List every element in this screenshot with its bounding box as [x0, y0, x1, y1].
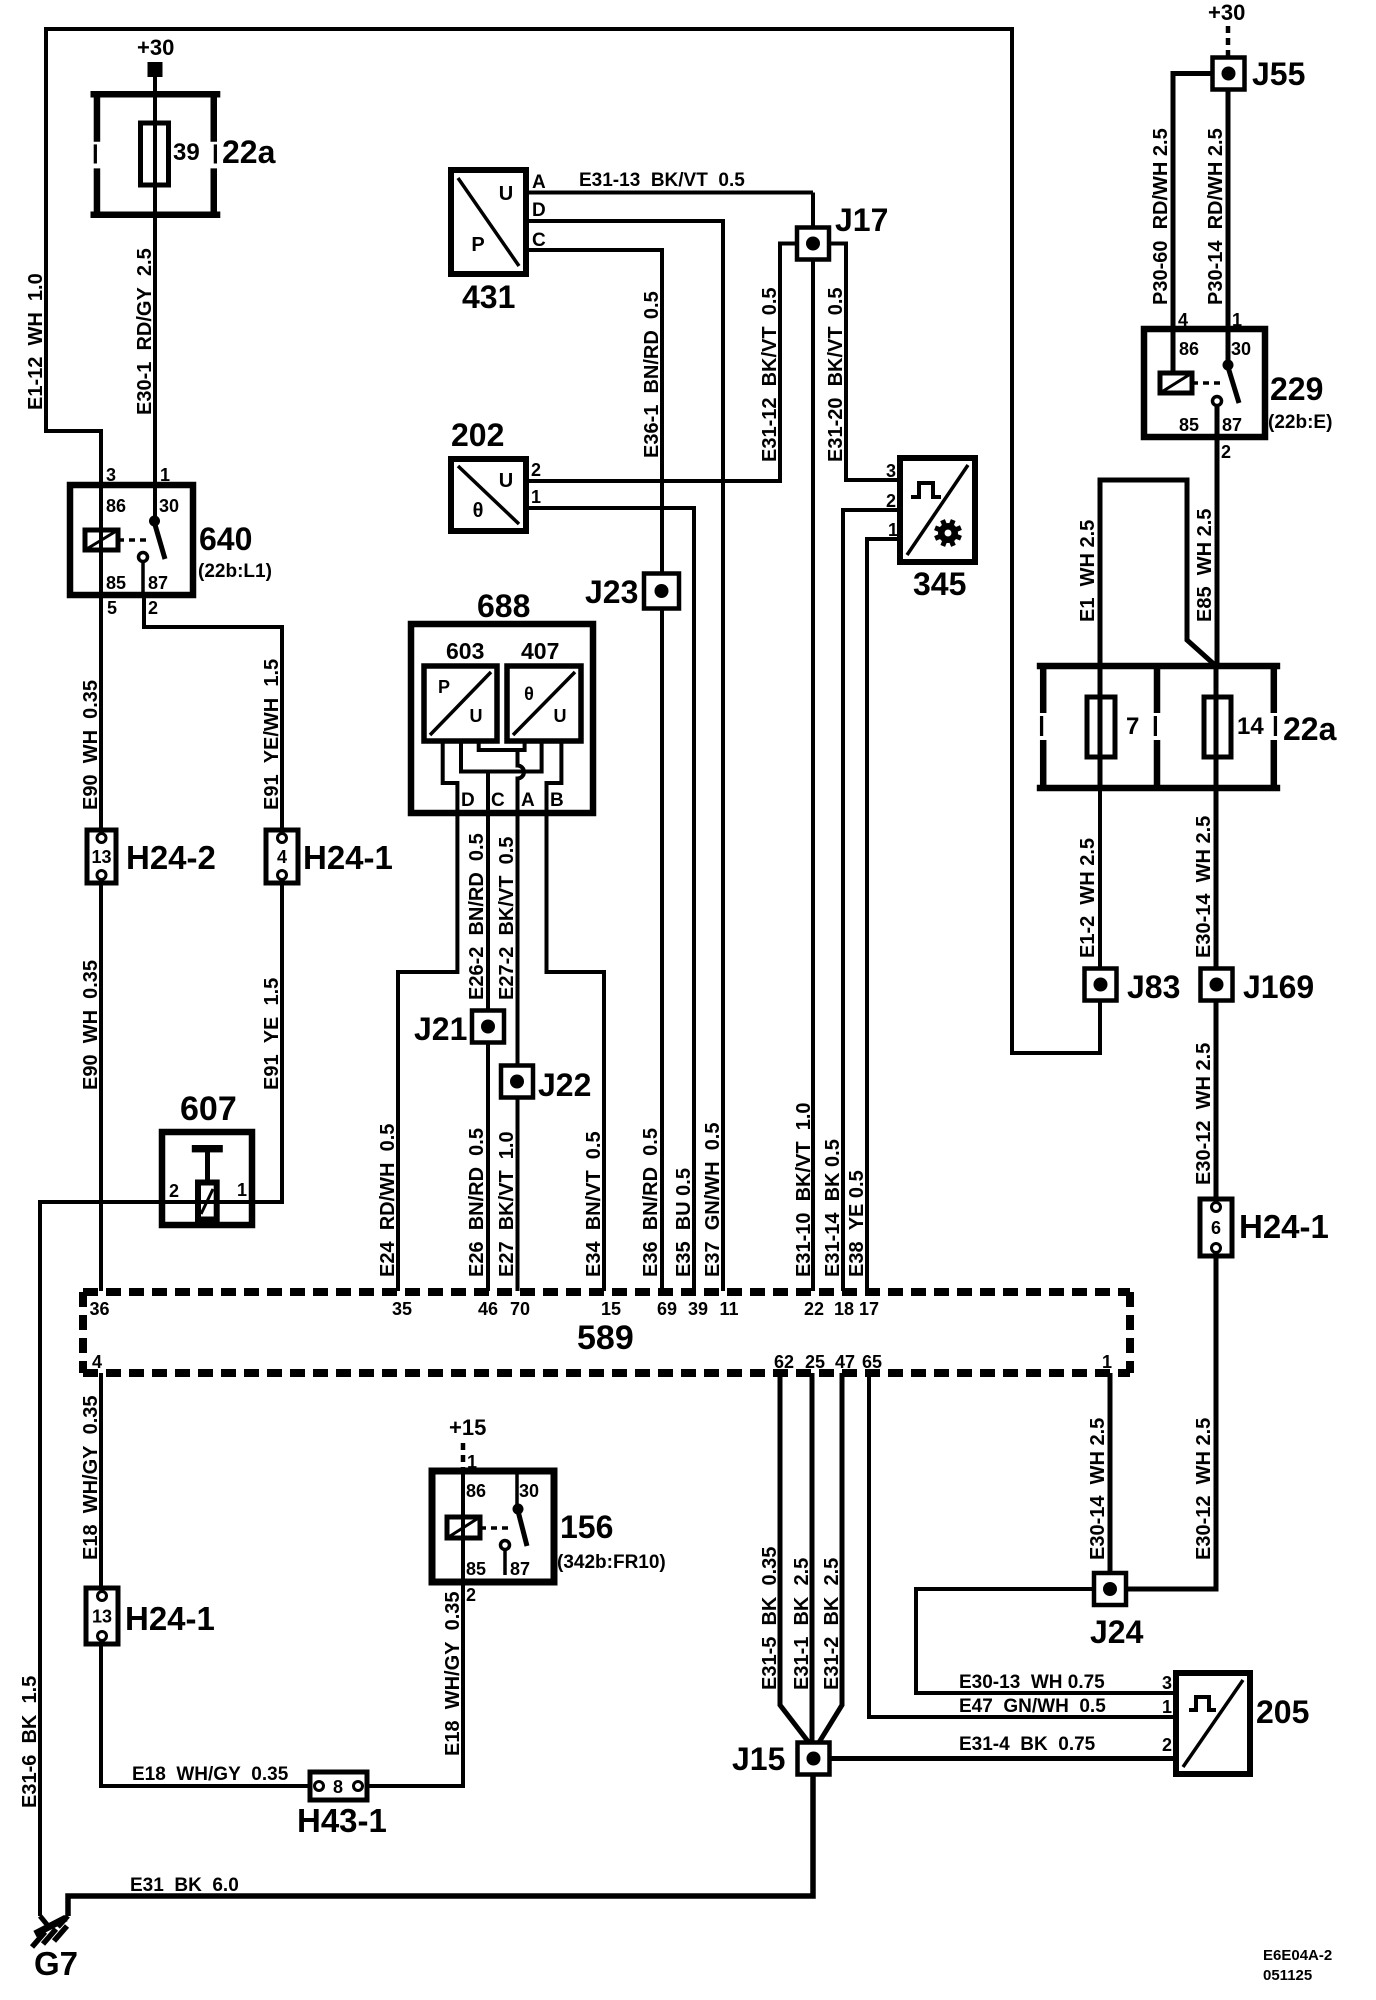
svg-text:E30-1 RD/GY 2.5: E30-1 RD/GY 2.5	[134, 248, 156, 415]
svg-text:+15: +15	[449, 1415, 486, 1440]
svg-text:E90 WH 0.35: E90 WH 0.35	[80, 680, 102, 810]
svg-text:B: B	[550, 790, 564, 811]
svg-text:A: A	[521, 790, 535, 811]
svg-text:E31-20 BK/VT 0.5: E31-20 BK/VT 0.5	[825, 287, 847, 462]
svg-text:J83: J83	[1127, 969, 1180, 1005]
svg-text:H24-1: H24-1	[125, 1600, 215, 1637]
svg-text:E91 YE/WH 1.5: E91 YE/WH 1.5	[261, 659, 283, 810]
svg-text:85: 85	[1179, 415, 1199, 435]
svg-text:J55: J55	[1252, 56, 1305, 92]
svg-text:E31-12 BK/VT 0.5: E31-12 BK/VT 0.5	[759, 287, 781, 462]
svg-text:13: 13	[92, 1607, 112, 1627]
svg-text:E90 WH 0.35: E90 WH 0.35	[80, 960, 102, 1090]
svg-text:688: 688	[477, 588, 530, 624]
svg-text:1: 1	[237, 1180, 247, 1200]
svg-text:051125: 051125	[1263, 1967, 1312, 1984]
svg-text:22a: 22a	[222, 134, 276, 170]
svg-text:589: 589	[577, 1319, 634, 1357]
svg-text:205: 205	[1256, 1694, 1309, 1730]
svg-text:E30-12 WH 2.5: E30-12 WH 2.5	[1193, 1043, 1215, 1185]
svg-text:22: 22	[804, 1299, 824, 1319]
svg-text:1: 1	[1232, 310, 1242, 330]
svg-text:E91 YE 1.5: E91 YE 1.5	[261, 978, 283, 1090]
svg-text:30: 30	[1231, 339, 1251, 359]
svg-text:13: 13	[91, 847, 111, 867]
svg-text:P: P	[471, 234, 484, 256]
svg-text:407: 407	[521, 638, 559, 664]
svg-text:25: 25	[805, 1352, 825, 1372]
svg-text:11: 11	[719, 1299, 738, 1319]
svg-text:H24-1: H24-1	[303, 839, 393, 876]
svg-text:U: U	[499, 183, 513, 205]
svg-text:P: P	[438, 677, 450, 697]
svg-text:(342b:FR10): (342b:FR10)	[557, 1552, 666, 1573]
svg-text:70: 70	[510, 1299, 530, 1319]
svg-text:E37 GN/WH 0.5: E37 GN/WH 0.5	[702, 1123, 724, 1278]
svg-text:1: 1	[1102, 1352, 1112, 1372]
svg-text:J24: J24	[1090, 1614, 1144, 1650]
svg-text:D: D	[532, 200, 546, 221]
svg-text:156: 156	[560, 1509, 613, 1545]
svg-text:39: 39	[688, 1299, 708, 1319]
svg-text:E26-2 BN/RD 0.5: E26-2 BN/RD 0.5	[466, 833, 488, 1000]
svg-text:H24-2: H24-2	[126, 839, 216, 876]
svg-text:E31-1 BK 2.5: E31-1 BK 2.5	[791, 1558, 813, 1690]
svg-text:E31 BK 6.0: E31 BK 6.0	[130, 1875, 239, 1896]
svg-text:30: 30	[159, 496, 179, 516]
svg-text:G7: G7	[34, 1945, 78, 1982]
svg-text:1: 1	[531, 487, 541, 507]
svg-text:431: 431	[462, 279, 515, 315]
svg-text:4: 4	[277, 847, 287, 867]
svg-text:E18 WH/GY 0.35: E18 WH/GY 0.35	[132, 1764, 289, 1785]
svg-text:2: 2	[531, 460, 541, 480]
svg-text:E1-12 WH 1.0: E1-12 WH 1.0	[25, 273, 47, 410]
svg-text:2: 2	[886, 491, 896, 511]
svg-text:E18 WH/GY 0.35: E18 WH/GY 0.35	[442, 1591, 464, 1756]
svg-text:E85 WH 2.5: E85 WH 2.5	[1194, 509, 1216, 622]
svg-text:1: 1	[888, 520, 898, 540]
svg-text:607: 607	[180, 1090, 237, 1128]
svg-text:15: 15	[601, 1299, 621, 1319]
svg-text:17: 17	[859, 1299, 879, 1319]
svg-text:C: C	[532, 230, 546, 251]
svg-text:E34 BN/VT 0.5: E34 BN/VT 0.5	[583, 1131, 605, 1277]
svg-text:3: 3	[886, 461, 896, 481]
svg-text:65: 65	[862, 1352, 882, 1372]
svg-text:E27 BK/VT 1.0: E27 BK/VT 1.0	[496, 1131, 518, 1277]
svg-text:2: 2	[169, 1181, 179, 1201]
svg-text:1: 1	[467, 1452, 477, 1472]
svg-text:E30-14 WH 2.5: E30-14 WH 2.5	[1087, 1418, 1109, 1560]
svg-text:87: 87	[510, 1559, 530, 1579]
svg-text:2: 2	[1162, 1735, 1172, 1755]
svg-text:U: U	[499, 470, 513, 492]
svg-text:E31-10 BK/VT 1.0: E31-10 BK/VT 1.0	[793, 1102, 815, 1277]
svg-text:640: 640	[199, 521, 252, 557]
svg-text:1: 1	[160, 465, 170, 485]
svg-text:1: 1	[1162, 1697, 1172, 1717]
svg-text:E1-2 WH 2.5: E1-2 WH 2.5	[1077, 838, 1099, 958]
svg-text:8: 8	[333, 1777, 343, 1797]
svg-text:(22b:E): (22b:E)	[1268, 412, 1332, 433]
svg-text:3: 3	[1162, 1673, 1172, 1693]
svg-text:46: 46	[478, 1299, 498, 1319]
svg-text:E31-5 BK 0.35: E31-5 BK 0.35	[759, 1547, 781, 1690]
svg-text:62: 62	[774, 1352, 794, 1372]
svg-text:E18 WH/GY 0.35: E18 WH/GY 0.35	[80, 1395, 102, 1560]
svg-text:E30-13 WH 0.75: E30-13 WH 0.75	[959, 1672, 1105, 1693]
svg-text:7: 7	[1126, 713, 1139, 740]
svg-text:E31-13 BK/VT 0.5: E31-13 BK/VT 0.5	[579, 170, 745, 191]
svg-text:+30: +30	[137, 35, 174, 60]
svg-text:E30-12 WH 2.5: E30-12 WH 2.5	[1193, 1418, 1215, 1560]
svg-text:5: 5	[107, 598, 117, 618]
svg-text:69: 69	[657, 1299, 677, 1319]
svg-text:603: 603	[446, 638, 484, 664]
svg-text:4: 4	[1178, 310, 1188, 330]
svg-text:P30-60 RD/WH 2.5: P30-60 RD/WH 2.5	[1150, 128, 1172, 305]
svg-text:22a: 22a	[1283, 711, 1337, 747]
svg-text:A: A	[532, 172, 546, 193]
svg-text:E6E04A-2: E6E04A-2	[1263, 1947, 1332, 1964]
svg-text:E27-2 BK/VT 0.5: E27-2 BK/VT 0.5	[496, 837, 518, 1000]
svg-text:U: U	[554, 706, 567, 726]
svg-text:J17: J17	[835, 202, 888, 238]
svg-text:30: 30	[519, 1481, 539, 1501]
svg-text:86: 86	[1179, 339, 1199, 359]
svg-text:E30-14 WH 2.5: E30-14 WH 2.5	[1193, 816, 1215, 958]
svg-text:E1 WH 2.5: E1 WH 2.5	[1077, 520, 1099, 622]
svg-text:2: 2	[1221, 442, 1231, 462]
svg-text:θ: θ	[473, 500, 484, 522]
svg-text:87: 87	[148, 573, 168, 593]
svg-text:39: 39	[173, 139, 200, 166]
svg-text:D: D	[461, 790, 475, 811]
svg-text:U: U	[470, 706, 483, 726]
svg-text:E36 BN/RD 0.5: E36 BN/RD 0.5	[640, 1128, 662, 1277]
svg-text:36: 36	[89, 1299, 109, 1319]
svg-text:2: 2	[148, 598, 158, 618]
svg-text:47: 47	[835, 1352, 855, 1372]
svg-text:3: 3	[106, 465, 116, 485]
svg-text:E38 YE 0.5: E38 YE 0.5	[846, 1170, 868, 1277]
svg-text:E35 BU 0.5: E35 BU 0.5	[673, 1168, 695, 1277]
svg-text:H43-1: H43-1	[297, 1802, 387, 1839]
svg-text:θ: θ	[524, 684, 534, 704]
svg-text:86: 86	[106, 496, 126, 516]
svg-text:E47 GN/WH 0.5: E47 GN/WH 0.5	[959, 1696, 1106, 1717]
svg-text:86: 86	[466, 1481, 486, 1501]
svg-text:87: 87	[1222, 415, 1242, 435]
svg-text:345: 345	[913, 566, 966, 602]
svg-text:+30: +30	[1208, 0, 1245, 25]
svg-text:85: 85	[106, 573, 126, 593]
svg-text:4: 4	[92, 1352, 102, 1372]
svg-text:E31-4 BK 0.75: E31-4 BK 0.75	[959, 1734, 1096, 1755]
svg-text:202: 202	[451, 417, 504, 453]
svg-text:2: 2	[466, 1585, 476, 1605]
svg-text:E26 BN/RD 0.5: E26 BN/RD 0.5	[466, 1128, 488, 1277]
svg-text:J169: J169	[1243, 969, 1314, 1005]
svg-text:J21: J21	[414, 1011, 467, 1047]
svg-text:14: 14	[1237, 713, 1264, 740]
svg-text:C: C	[491, 790, 505, 811]
svg-text:P30-14 RD/WH 2.5: P30-14 RD/WH 2.5	[1205, 128, 1227, 305]
svg-text:E24 RD/WH 0.5: E24 RD/WH 0.5	[377, 1124, 399, 1277]
svg-text:J23: J23	[585, 574, 638, 610]
svg-text:85: 85	[466, 1559, 486, 1579]
svg-text:6: 6	[1211, 1218, 1221, 1238]
svg-text:H24-1: H24-1	[1239, 1208, 1329, 1245]
svg-text:35: 35	[392, 1299, 412, 1319]
svg-text:J15: J15	[732, 1741, 785, 1777]
svg-text:E31-6 BK 1.5: E31-6 BK 1.5	[19, 1676, 41, 1808]
svg-text:18: 18	[834, 1299, 854, 1319]
svg-text:229: 229	[1270, 371, 1323, 407]
svg-text:(22b:L1): (22b:L1)	[198, 561, 272, 582]
svg-text:J22: J22	[538, 1067, 591, 1103]
svg-text:E31-2 BK 2.5: E31-2 BK 2.5	[821, 1558, 843, 1690]
svg-text:E36-1 BN/RD 0.5: E36-1 BN/RD 0.5	[641, 291, 663, 458]
svg-text:E31-14 BK 0.5: E31-14 BK 0.5	[822, 1139, 844, 1277]
